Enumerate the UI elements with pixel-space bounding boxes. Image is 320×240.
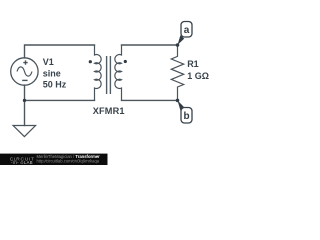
resistor R1 <box>171 45 183 100</box>
junction dot node b <box>176 99 180 103</box>
watermark bar <box>0 154 108 165</box>
wire V1 bottom to junction <box>24 85 26 100</box>
wire bottom-left from junction to XFMR1 primary <box>25 99 95 101</box>
transformer XFMR1 secondary winding <box>115 45 122 100</box>
transformer core <box>107 56 111 94</box>
wire top-left from V1 to XFMR1 primary <box>25 45 95 58</box>
svg-text:1 GΩ: 1 GΩ <box>187 71 209 81</box>
svg-text:-\/\- ⊙LAB: -\/\- ⊙LAB <box>11 160 33 165</box>
wire XFMR1 secondary bottom to R1 <box>122 99 178 101</box>
svg-text:sine: sine <box>43 69 61 79</box>
svg-text:V1: V1 <box>43 57 54 67</box>
ground <box>13 126 35 137</box>
junction dot left bottom <box>23 99 26 102</box>
svg-text:a: a <box>184 25 190 36</box>
node b pointer <box>178 100 185 110</box>
primary phase dot <box>89 60 92 63</box>
svg-text:R1: R1 <box>187 59 199 69</box>
wire XFMR1 secondary top to R1 <box>122 44 178 46</box>
node a pointer <box>178 35 185 45</box>
svg-text:http:∕∕circuitlab.com∕c∕v0lq9m: http:∕∕circuitlab.com∕c∕v0lq9mrkaqa <box>37 158 100 163</box>
svg-text:XFMR1: XFMR1 <box>93 106 125 116</box>
node b box <box>181 108 192 124</box>
transformer XFMR1 primary winding <box>95 45 102 100</box>
node a box <box>181 22 192 38</box>
wire junction to ground <box>24 100 26 125</box>
junction dot node a <box>176 43 180 47</box>
voltage source V1 <box>11 58 38 85</box>
svg-text:b: b <box>183 111 189 122</box>
svg-text:50 Hz: 50 Hz <box>43 80 67 90</box>
secondary phase dot <box>124 60 127 63</box>
